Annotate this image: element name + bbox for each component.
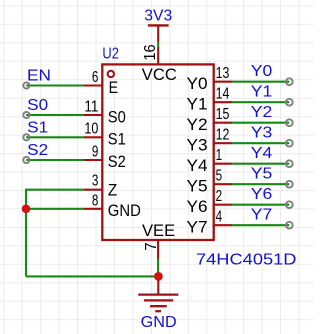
- wire Y4: [232, 163, 289, 165]
- wire Y1: [232, 101, 289, 103]
- svg-text:12: 12: [216, 126, 230, 143]
- svg-text:4: 4: [216, 208, 223, 225]
- svg-text:11: 11: [84, 98, 98, 115]
- power flag 3V3 bar: [148, 24, 169, 26]
- pin 8 GND stub: [84, 208, 102, 210]
- ground symbol stem: [157, 276, 159, 294]
- svg-text:Y2: Y2: [251, 104, 273, 121]
- svg-text:Y0: Y0: [187, 74, 208, 93]
- svg-text:S2: S2: [108, 152, 126, 171]
- pin 14 Y1 stub: [214, 101, 232, 103]
- svg-text:10: 10: [84, 121, 98, 138]
- svg-text:VEE: VEE: [142, 221, 175, 240]
- svg-text:Y7: Y7: [187, 218, 208, 237]
- svg-text:Z: Z: [108, 181, 118, 200]
- svg-text:S1: S1: [27, 119, 48, 136]
- svg-text:6: 6: [92, 69, 99, 86]
- svg-text:Y6: Y6: [187, 197, 208, 216]
- wire Y0: [232, 81, 289, 83]
- wire EN: [26, 84, 84, 86]
- svg-text:7: 7: [143, 242, 160, 250]
- svg-text:Y1: Y1: [187, 95, 208, 114]
- svg-text:Y3: Y3: [187, 136, 208, 155]
- ground bar 1: [138, 293, 178, 295]
- pin 12 Y3 stub: [214, 142, 232, 144]
- wire S2: [26, 159, 84, 161]
- terminal circle S1: [23, 134, 29, 140]
- ground bar 2: [144, 299, 173, 301]
- wire VEE down: [157, 258, 159, 276]
- svg-text:S2: S2: [27, 142, 48, 159]
- pin 4 Y7 stub: [214, 224, 232, 226]
- junction dot bottom: [154, 272, 163, 281]
- svg-text:Y5: Y5: [251, 166, 273, 183]
- svg-text:Y7: Y7: [251, 207, 273, 224]
- pin 16 VCC stub: [157, 47, 159, 64]
- svg-text:Y1: Y1: [251, 84, 273, 101]
- terminal circle Y6: [286, 201, 293, 208]
- terminal circle Y7: [286, 222, 293, 229]
- terminal circle Y3: [286, 140, 293, 147]
- svg-text:VCC: VCC: [142, 65, 177, 84]
- pin 6 E stub: [84, 84, 102, 86]
- svg-text:Y3: Y3: [251, 125, 273, 142]
- pin 15 Y2 stub: [214, 122, 232, 124]
- pin 11 S0 stub: [84, 114, 102, 116]
- wire Y6: [232, 204, 289, 206]
- terminal circle Y1: [286, 99, 293, 106]
- svg-text:S1: S1: [108, 130, 126, 149]
- terminal circle Y2: [286, 119, 293, 126]
- pin 1 Y4 stub: [214, 163, 232, 165]
- wire Y7: [232, 224, 289, 226]
- pin 2 Y6 stub: [214, 204, 232, 206]
- svg-text:S0: S0: [108, 107, 126, 126]
- wire Y5: [232, 183, 289, 185]
- svg-text:8: 8: [92, 192, 99, 209]
- svg-text:9: 9: [92, 143, 99, 160]
- svg-text:GND: GND: [108, 201, 141, 220]
- svg-text:13: 13: [216, 65, 230, 82]
- pin 7 VEE stub: [157, 240, 159, 259]
- svg-text:Y6: Y6: [251, 186, 273, 203]
- wire 3V3 to VCC: [157, 41, 159, 47]
- wire GND pin8: [26, 208, 84, 210]
- terminal circle Y0: [286, 78, 293, 85]
- inversion bubble on pin E: [108, 71, 114, 77]
- svg-text:U2: U2: [102, 46, 119, 63]
- pin 13 Y0 stub: [214, 81, 232, 83]
- svg-text:5: 5: [216, 167, 223, 184]
- svg-text:Y4: Y4: [251, 145, 273, 162]
- svg-text:S0: S0: [27, 97, 48, 114]
- pin 10 S1 stub: [84, 136, 102, 138]
- svg-text:74HC4051D: 74HC4051D: [196, 252, 297, 269]
- svg-text:14: 14: [216, 85, 230, 102]
- svg-text:Y0: Y0: [251, 63, 273, 80]
- wire S1: [26, 136, 84, 138]
- terminal circle Y4: [286, 160, 293, 167]
- junction dot left: [22, 205, 31, 214]
- svg-text:Y2: Y2: [187, 115, 208, 134]
- ground bar 3: [150, 305, 167, 307]
- svg-text:Y5: Y5: [187, 177, 208, 196]
- IC U2 74HC4051D body: [102, 64, 213, 240]
- pin 9 S2 stub: [84, 159, 102, 161]
- svg-text:1: 1: [216, 147, 223, 164]
- ground bar 4: [155, 310, 161, 312]
- wire Y3: [232, 142, 289, 144]
- svg-text:E: E: [109, 78, 119, 97]
- terminal circle S2: [23, 157, 29, 163]
- svg-text:2: 2: [216, 188, 223, 205]
- wire Z to left bus: [26, 190, 84, 277]
- svg-text:3: 3: [92, 173, 99, 190]
- wire bottom bus: [26, 275, 158, 277]
- wire Y2: [232, 122, 289, 124]
- svg-text:EN: EN: [27, 67, 51, 84]
- power flag 3V3 stem: [157, 25, 159, 41]
- svg-text:GND: GND: [141, 314, 177, 331]
- pin 5 Y5 stub: [214, 183, 232, 185]
- svg-text:16: 16: [142, 44, 159, 60]
- wire S0: [26, 114, 84, 116]
- terminal circle EN: [23, 82, 29, 88]
- svg-text:15: 15: [216, 106, 230, 123]
- terminal circle S0: [23, 112, 29, 118]
- pin 3 Z stub: [84, 189, 102, 191]
- svg-text:3V3: 3V3: [144, 7, 172, 24]
- terminal circle Y5: [286, 181, 293, 188]
- svg-text:Y4: Y4: [187, 156, 208, 175]
